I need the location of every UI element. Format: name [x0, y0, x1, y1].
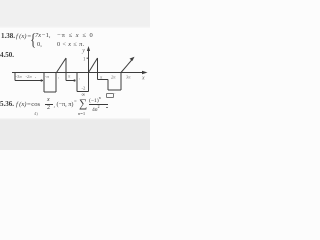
sum lower limit n=1 [78, 111, 85, 116]
svg-text:3π: 3π [126, 75, 131, 80]
drop from peak through axis to -1 at x66 [65, 58, 67, 81]
svg-text:-2: -2 [82, 86, 87, 91]
svg-text:π: π [100, 75, 103, 80]
svg-text:-2π: -2π [26, 74, 33, 79]
x-axis [12, 72, 145, 74]
wire: -1 level segment x15-43 [15, 80, 43, 82]
condition 0<x<=pi [57, 41, 85, 48]
final ramp with arrow [121, 59, 133, 73]
y-axis arrowhead [87, 46, 90, 51]
top margin band (page background above scan) [0, 0, 150, 28]
ramp x57-66 up to peak [57, 58, 67, 73]
branch value 7x-1 [35, 32, 51, 39]
graph figure [0, 0, 150, 150]
wire: -2 level segment x77-88 [77, 91, 89, 93]
comma after fraction [54, 103, 55, 109]
condition -pi<=x<=0 [57, 32, 94, 39]
wire: -2 level segment x108-121 [108, 89, 121, 91]
series denominator 4n^2 [92, 105, 100, 113]
wire: jump at x77 to -2 level [76, 73, 78, 92]
piecewise brace [30, 30, 36, 50]
svg-text:x: x [141, 76, 145, 82]
drop from peak to -1 at x97 [97, 58, 99, 80]
tick dash at level 1 on y-axis [87, 57, 89, 59]
wire: -1 level segment x97-108 [98, 79, 109, 81]
superscript mark after numerator [106, 93, 114, 99]
wire: rise to axis at x121 [120, 73, 122, 91]
fraction x/2 denominator [47, 105, 50, 111]
f(x)= of problem 1.38 [16, 33, 31, 40]
branch value 0 [37, 41, 42, 48]
svg-text:1: 1 [83, 58, 86, 63]
fraction x/2 bar [45, 104, 53, 105]
svg-text:π: π [68, 74, 71, 79]
junction blob at end of segment [73, 79, 75, 81]
junction blob at end of -1 segment [40, 79, 42, 81]
svg-text:2π: 2π [111, 75, 116, 80]
svg-text:y: y [81, 48, 85, 54]
wire: left drop from axis to -1 level [14, 73, 16, 81]
footnote mark 4) [34, 111, 38, 116]
problem number 5.36 [0, 100, 14, 108]
svg-text:-3π: -3π [16, 74, 23, 79]
arrowhead of final ramp [130, 57, 135, 61]
svg-text:,: , [58, 74, 59, 80]
wire: -2 level segment x44-56 [44, 91, 56, 93]
wire: rise to axis along y-axis [88, 73, 90, 92]
wire: drop to -2 at x108 [107, 80, 109, 91]
wire: rise back to axis at x56 [55, 73, 57, 93]
problem number 4.50 [0, 51, 14, 59]
sum upper limit infinity [82, 93, 86, 98]
sum sign [79, 98, 87, 110]
series numerator (-1)^n [89, 96, 101, 104]
ramp x88-97 up to peak [89, 58, 98, 73]
f(x)=cos of problem 5.36 [16, 101, 40, 108]
problem number 1.38 [1, 32, 15, 40]
bottom margin band (page background below scan) [0, 118, 150, 150]
wire: jump at x44 from axis to -2 level [43, 73, 45, 93]
fraction x/2 numerator [47, 97, 50, 103]
svg-text:,: , [79, 75, 80, 81]
y-axis [88, 48, 90, 78]
svg-text:,: , [35, 74, 36, 80]
svg-text:-π: -π [45, 74, 50, 79]
interval (-pi, pi) [57, 101, 74, 108]
equals before sum [74, 100, 77, 105]
series fraction bar [89, 104, 108, 105]
x-axis arrowhead [142, 71, 148, 74]
wire: -1 level segment x66-75 [66, 80, 75, 82]
small mark right of denominator [106, 106, 109, 109]
